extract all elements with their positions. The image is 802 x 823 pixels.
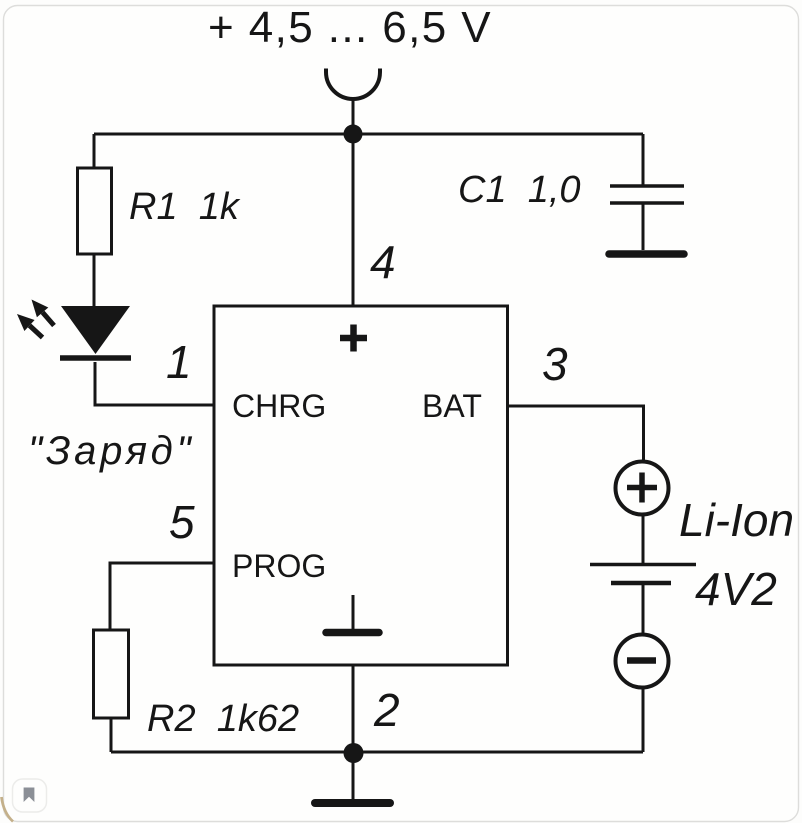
svg-text:PROG: PROG [232, 548, 326, 584]
wire pin 2 [352, 665, 355, 752]
svg-text:4V2: 4V2 [695, 563, 777, 615]
wire pin 5 to R2 [110, 563, 214, 630]
node bottom junction [344, 743, 364, 763]
wire R1 to LED [93, 254, 96, 307]
IC U1 box [214, 306, 508, 665]
wire C1 to ground bar [642, 204, 645, 250]
svg-text:C1 1,0: C1 1,0 [458, 169, 581, 211]
wire minus to bottom rail [642, 687, 645, 752]
connector X1 [326, 69, 380, 100]
svg-text:CHRG: CHRG [232, 388, 326, 424]
svg-text:4: 4 [370, 236, 396, 288]
wire R2 to bottom rail [110, 718, 113, 752]
C1 ground bar [609, 250, 684, 258]
svg-text:+ 4,5 ... 6,5 V: + 4,5 ... 6,5 V [208, 3, 492, 52]
LED VD1 [61, 306, 130, 354]
svg-text:R1 1k: R1 1k [129, 186, 241, 228]
battery GB1 plates [590, 563, 696, 567]
svg-text:3: 3 [542, 338, 568, 390]
wire LED to CHRG pin [95, 362, 214, 405]
LED arrows [17, 300, 54, 338]
wire plates to minus [642, 585, 645, 635]
wire bottom rail [111, 751, 643, 754]
resistor R1 [78, 168, 112, 254]
node top junction [344, 125, 363, 144]
svg-text:R2 1k62: R2 1k62 [147, 698, 299, 740]
ground [352, 753, 355, 799]
wire top rail [94, 133, 643, 136]
wire left drop to R1 [93, 134, 96, 169]
bookmark icon [13, 779, 47, 812]
wire plus to plates [642, 514, 645, 563]
corner accent [2, 797, 14, 822]
svg-text:BAT: BAT [422, 388, 482, 424]
svg-text:5: 5 [169, 496, 195, 548]
IC ground mark [352, 595, 355, 630]
capacitor C1 [610, 184, 684, 188]
battery plus terminal [616, 462, 669, 515]
svg-text:1: 1 [166, 336, 192, 388]
wire top rail to C1 [642, 134, 645, 185]
IC plus mark [340, 325, 367, 352]
svg-text:2: 2 [373, 684, 400, 736]
resistor R2 [94, 630, 129, 718]
wire pin 3 to battery [508, 406, 644, 462]
wire connector to node [352, 99, 355, 134]
svg-text:"Заряд": "Заряд" [28, 429, 194, 473]
wire pin 4 [352, 134, 355, 306]
svg-text:Li-Ion: Li-Ion [679, 494, 794, 546]
battery minus terminal [616, 635, 669, 688]
